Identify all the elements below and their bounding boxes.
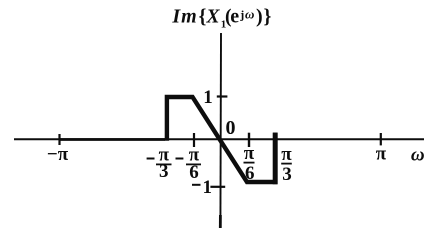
tick +1 on vertical axis	[217, 95, 228, 97]
svg-text:1: 1	[202, 177, 212, 198]
svg-text:3: 3	[282, 164, 292, 185]
svg-text:Im: Im	[171, 5, 197, 27]
label pi/3 (fraction)	[281, 144, 292, 185]
svg-text:6: 6	[245, 163, 255, 184]
title Im{X1(e^jw)}	[171, 5, 271, 30]
svg-text:e: e	[230, 5, 239, 27]
label -pi/3 (fraction)	[147, 145, 172, 182]
svg-text:π: π	[281, 144, 292, 165]
svg-text:j: j	[239, 7, 244, 21]
svg-text:6: 6	[189, 162, 199, 183]
jump bar at pi/3 (slightly wider)	[273, 133, 278, 185]
svg-text:X: X	[206, 6, 221, 27]
svg-text:ω: ω	[411, 144, 425, 165]
tick pi	[380, 133, 382, 145]
svg-text:{: {	[199, 5, 207, 27]
zero-value segment of signal overlapping axis between -pi and -pi/3	[60, 138, 165, 141]
svg-text:π: π	[376, 144, 387, 165]
label pi/6 (fraction)	[244, 143, 255, 184]
tick pi/6	[248, 133, 250, 147]
vertical axis bottom (scan thickening)	[219, 215, 222, 228]
label -pi/6 (fraction)	[176, 145, 202, 184]
svg-text:ω: ω	[245, 7, 254, 22]
signal curve: jump at -pi/3, flat 1, ramp down through origin, flat -1, jump at pi/3	[167, 97, 275, 182]
svg-text:π: π	[244, 143, 255, 164]
horizontal axis (omega axis)	[14, 138, 424, 140]
tick -pi	[58, 134, 60, 145]
svg-text:3: 3	[159, 161, 169, 182]
svg-text:−π: −π	[47, 144, 69, 165]
tick -1 on vertical axis	[210, 186, 225, 188]
svg-text:1: 1	[203, 87, 213, 108]
tick -pi/6	[193, 133, 195, 147]
svg-text:}: }	[264, 5, 272, 27]
svg-text:0: 0	[226, 117, 236, 139]
label -1 at -1 tick	[192, 177, 212, 198]
vertical axis	[219, 33, 222, 228]
svg-text:): )	[256, 5, 263, 27]
